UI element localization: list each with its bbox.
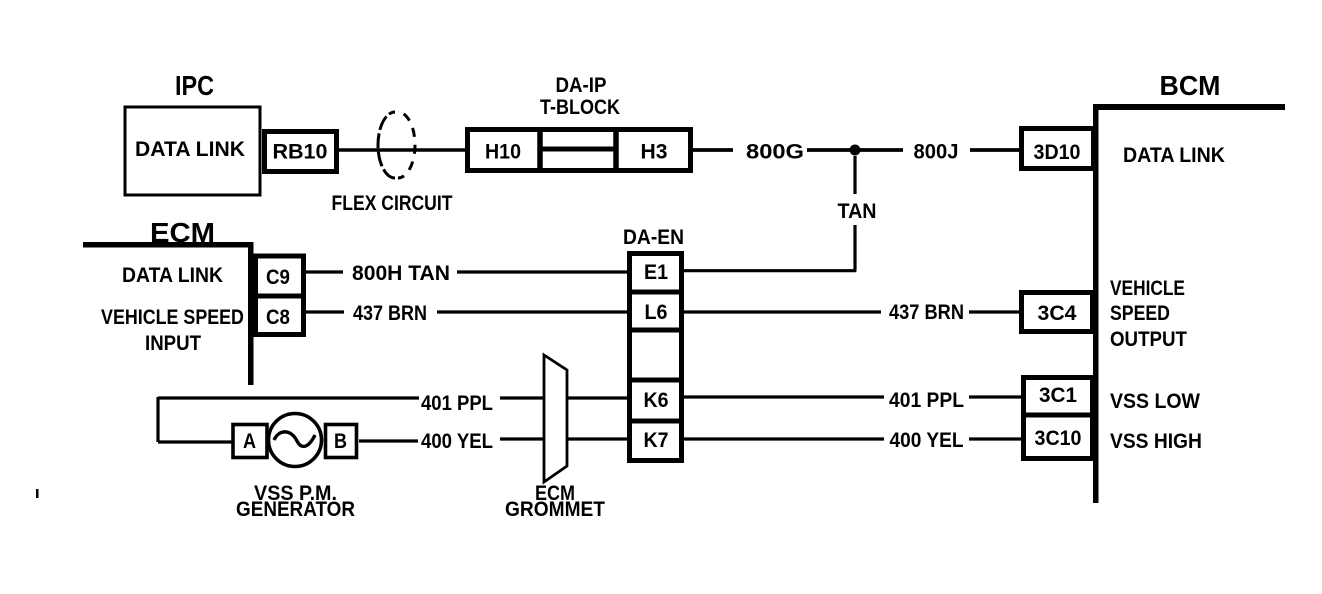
svg-text:ECM: ECM [150,218,215,249]
svg-text:DATA LINK: DATA LINK [122,264,223,287]
svg-text:3C1: 3C1 [1039,384,1077,407]
svg-text:FLEX CIRCUIT: FLEX CIRCUIT [332,192,453,216]
svg-text:800G: 800G [746,140,804,163]
svg-text:GROMMET: GROMMET [505,498,606,521]
svg-text:H10: H10 [485,141,521,164]
svg-text:437 BRN: 437 BRN [353,302,427,326]
svg-text:3C10: 3C10 [1035,427,1082,450]
svg-text:3D10: 3D10 [1034,141,1081,164]
svg-text:A: A [243,430,256,454]
svg-text:K7: K7 [644,429,669,452]
svg-text:INPUT: INPUT [145,332,201,355]
svg-text:400 YEL: 400 YEL [890,429,964,452]
svg-text:H3: H3 [641,141,668,164]
svg-text:800H TAN: 800H TAN [352,262,450,285]
svg-text:IPC: IPC [175,71,214,101]
svg-text:TAN: TAN [838,200,877,223]
svg-text:VSS HIGH: VSS HIGH [1110,430,1202,453]
svg-text:K6: K6 [644,389,669,412]
svg-text:401 PPL: 401 PPL [889,389,964,412]
svg-text:SPEED: SPEED [1110,302,1170,326]
svg-text:T-BLOCK: T-BLOCK [540,96,620,120]
svg-text:3C4: 3C4 [1038,302,1077,325]
svg-text:B: B [334,430,347,454]
svg-text:DATA LINK: DATA LINK [1123,144,1225,167]
svg-text:437 BRN: 437 BRN [889,301,964,324]
svg-text:401 PPL: 401 PPL [421,392,493,415]
svg-text:DA-IP: DA-IP [556,74,607,97]
svg-text:C9: C9 [266,266,290,289]
svg-text:400 YEL: 400 YEL [421,430,493,453]
svg-text:L6: L6 [644,301,667,324]
svg-text:OUTPUT: OUTPUT [1110,328,1187,351]
svg-text:GENERATOR: GENERATOR [236,498,355,521]
svg-text:DATA LINK: DATA LINK [135,138,246,161]
svg-text:VEHICLE: VEHICLE [1110,278,1185,301]
svg-text:E1: E1 [644,261,668,284]
svg-text:DA-EN: DA-EN [623,226,684,249]
svg-text:RB10: RB10 [273,140,328,164]
svg-text:VSS LOW: VSS LOW [1110,390,1201,413]
svg-text:BCM: BCM [1160,69,1221,101]
svg-text:800J: 800J [914,140,959,163]
svg-text:C8: C8 [266,306,290,329]
svg-text:VEHICLE SPEED: VEHICLE SPEED [101,306,244,330]
